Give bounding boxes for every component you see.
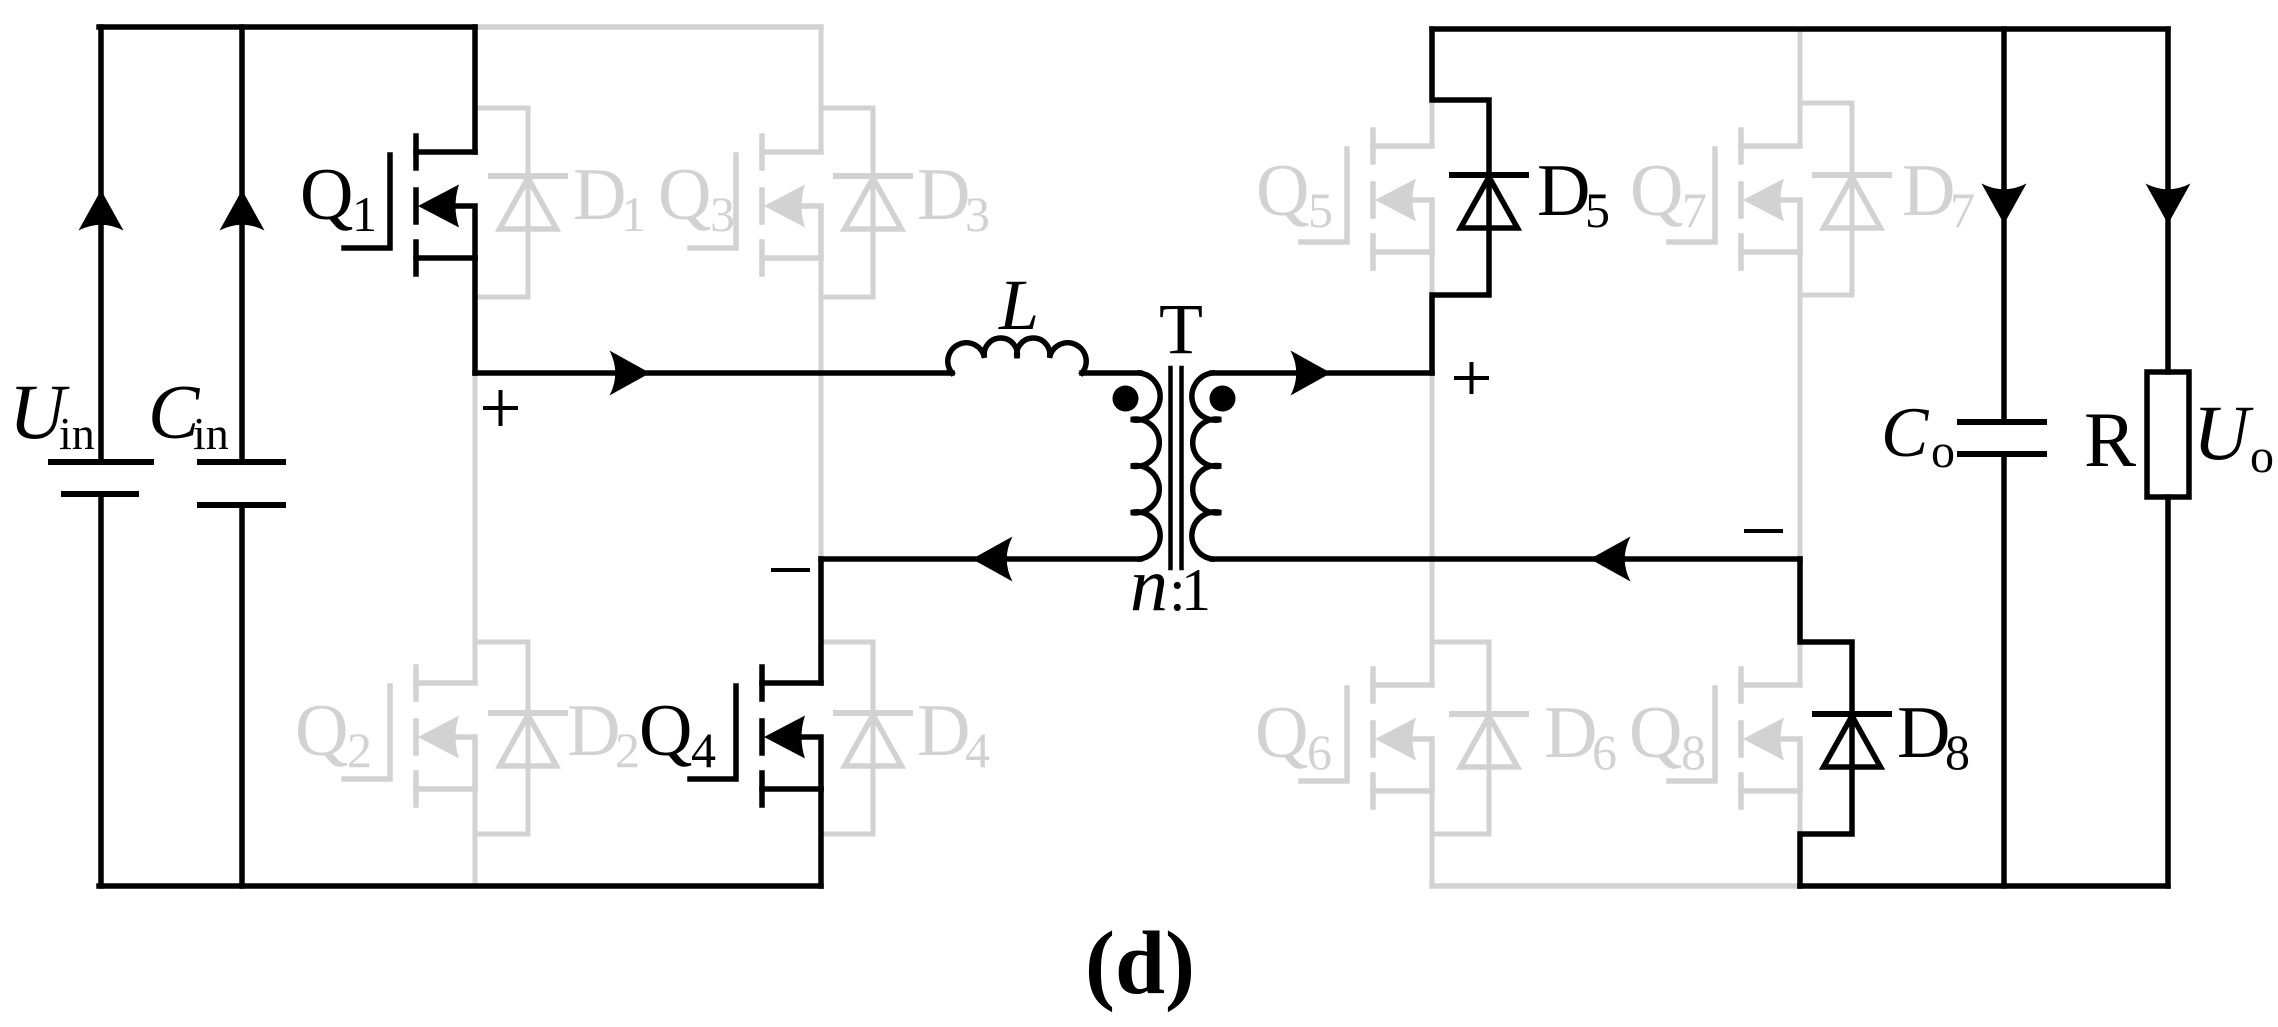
svg-text:o: o <box>2250 430 2274 483</box>
svg-text:5: 5 <box>1585 182 1610 238</box>
svg-text:D: D <box>1537 150 1590 232</box>
wire D4 bracket <box>821 642 873 834</box>
svg-text:4: 4 <box>965 722 990 778</box>
wire primary bottom (node B) <box>821 556 1140 562</box>
transistor Q1 <box>344 136 475 274</box>
diode D2 <box>491 713 565 766</box>
svg-text:Q: Q <box>295 690 348 772</box>
wire D1 bracket <box>475 108 528 297</box>
wire Q3 source down to node B corner <box>819 258 824 559</box>
transistor Q5 <box>1301 130 1432 268</box>
arrow right on secondary + wire <box>1291 351 1332 396</box>
svg-text:Q: Q <box>300 154 353 236</box>
node + label left (plus sign) <box>485 392 516 424</box>
wire leg C vertical grey <box>1430 29 1435 685</box>
svg-text:6: 6 <box>1307 724 1332 780</box>
svg-text:U: U <box>2193 389 2254 476</box>
transformer secondary dot <box>1210 386 1236 412</box>
transistor Q3 <box>690 136 821 274</box>
svg-text:1: 1 <box>1181 557 1211 623</box>
wire node B corner down to Q4 <box>818 559 824 683</box>
transformer T primary winding <box>1131 373 1160 559</box>
wire R upper vertical <box>2165 29 2171 372</box>
wire Q8 verticals grey <box>1798 642 1803 834</box>
svg-text:Q: Q <box>1256 150 1309 232</box>
resistor R <box>2147 372 2189 497</box>
wire leg A lower vertical (node A to Q2) <box>473 373 478 683</box>
svg-text:D: D <box>567 690 620 772</box>
transistor Q6 <box>1301 669 1432 807</box>
transistor Q2 <box>344 667 475 805</box>
wire secondary bottom to leg D <box>1212 556 1800 562</box>
svg-text:D: D <box>917 154 970 236</box>
svg-text:7: 7 <box>1682 182 1707 238</box>
wire Q1 source to node A <box>472 258 478 373</box>
wire top rail right (black) <box>1432 26 2168 32</box>
svg-text:T: T <box>1159 289 1203 369</box>
wire C_in upper vertical <box>239 27 245 462</box>
arrow down on R branch <box>2146 184 2191 225</box>
svg-text:3: 3 <box>710 186 735 242</box>
svg-text:Q: Q <box>658 154 711 236</box>
wire top rail grey segment (leg A to leg B) <box>475 24 821 30</box>
svg-text:8: 8 <box>1945 724 1970 780</box>
svg-text:R: R <box>2084 396 2136 483</box>
svg-text:in: in <box>193 408 229 459</box>
wire C_o upper vertical <box>2001 29 2007 422</box>
arrow right on primary + wire <box>610 351 651 396</box>
wire node A to inductor <box>475 370 952 376</box>
wire right bottom rail black <box>1800 883 2168 889</box>
svg-text:3: 3 <box>965 186 990 242</box>
wire Q4 source to bottom rail <box>818 789 824 886</box>
node - label right (minus sign) <box>1746 529 1781 533</box>
wire leg D D8 path <box>1800 559 1852 886</box>
arrow up on C_in branch <box>220 190 265 231</box>
svg-text:D: D <box>1897 692 1950 774</box>
wire D3 bracket <box>821 108 873 297</box>
svg-text:6: 6 <box>1592 724 1617 780</box>
svg-text:D: D <box>1544 692 1597 774</box>
wire left rail upper <box>98 27 104 462</box>
wire D6 bracket <box>1432 642 1489 834</box>
wire C_o lower vertical <box>2001 454 2007 886</box>
arrow left on primary - wire <box>972 537 1013 582</box>
wire top rail left (black) <box>99 24 475 30</box>
capacitor C_in <box>200 462 283 505</box>
capacitor C_o <box>1960 422 2044 454</box>
diode D3 <box>836 176 910 229</box>
wire leg B upper vertical (rail to Q3) <box>819 27 824 152</box>
svg-text:1: 1 <box>621 186 646 242</box>
wire leg C D5 path <box>1432 29 1489 373</box>
diode D4 <box>836 713 910 766</box>
wire leg D vertical grey (rail to node corner) <box>1798 29 1803 559</box>
wire secondary top to rectifier <box>1212 370 1432 376</box>
diode D6 <box>1452 714 1526 767</box>
diode D8 <box>1815 714 1889 767</box>
arrow down on C_o branch <box>1982 184 2027 225</box>
svg-text:5: 5 <box>1308 182 1333 238</box>
svg-text:in: in <box>59 408 95 459</box>
transistor Q8 <box>1669 669 1800 807</box>
wire Q2 source to bottom rail <box>473 789 478 886</box>
svg-text:n: n <box>1130 543 1168 627</box>
diode D7 <box>1815 175 1889 228</box>
node - label left (minus sign) <box>773 568 808 572</box>
transformer T secondary winding <box>1192 373 1221 559</box>
wire bottom rail left (black) <box>99 883 821 889</box>
wire D2 bracket <box>475 642 528 834</box>
svg-text:D: D <box>573 154 626 236</box>
wire C_in lower vertical <box>239 505 245 886</box>
svg-text:7: 7 <box>1950 182 1975 238</box>
svg-text:L: L <box>998 265 1039 345</box>
transformer primary dot <box>1113 386 1139 412</box>
svg-text:2: 2 <box>347 722 372 778</box>
arrow up on U_in branch <box>79 190 124 231</box>
transistor Q7 <box>1669 130 1800 268</box>
wire Q6 source to bottom rail <box>1430 791 1435 886</box>
svg-text:1: 1 <box>352 186 377 242</box>
svg-text:2: 2 <box>615 722 640 778</box>
diode D5 <box>1452 175 1526 228</box>
diode D1 <box>491 176 565 229</box>
node + label right (plus sign) <box>1456 364 1487 392</box>
svg-text:Q: Q <box>1630 150 1683 232</box>
wire D7 bracket <box>1800 103 1852 295</box>
svg-text:C: C <box>1881 394 1930 472</box>
svg-text:Q: Q <box>639 690 692 772</box>
arrow left on secondary - wire <box>1590 537 1631 582</box>
svg-text:D: D <box>917 690 970 772</box>
svg-text:8: 8 <box>1681 724 1706 780</box>
svg-text:(d): (d) <box>1085 914 1195 1013</box>
svg-text:Q: Q <box>1629 692 1682 774</box>
wire inductor to transformer <box>1082 370 1140 376</box>
wire left rail lower <box>98 494 104 886</box>
svg-text:4: 4 <box>691 722 716 778</box>
battery U_in <box>51 462 151 494</box>
svg-text:Q: Q <box>1255 692 1308 774</box>
wire right bridge bottom rail grey segment <box>1432 883 1800 889</box>
svg-text:o: o <box>1931 425 1955 478</box>
svg-text:D: D <box>1902 150 1955 232</box>
transformer core <box>1171 368 1182 568</box>
inductor L <box>948 338 1086 373</box>
wire Q1 drain vertical <box>472 27 478 152</box>
wire R lower vertical <box>2165 497 2171 886</box>
transistor Q4 <box>690 667 821 805</box>
